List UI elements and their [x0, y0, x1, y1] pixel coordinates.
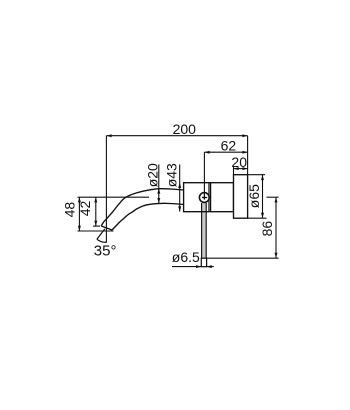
angle 35 degrees	[97, 229, 105, 239]
dimension ø6.5	[172, 266, 201, 268]
spout bottom outline	[112, 203, 184, 230]
handle screw	[199, 193, 209, 203]
dimension 42	[95, 197, 97, 226]
body joint lines	[208, 183, 210, 212]
dimension 48	[78, 197, 80, 231]
screw cross	[202, 197, 207, 199]
dimension 86	[267, 196, 279, 198]
svg-text:ø6.5: ø6.5	[172, 249, 200, 265]
svg-text:200: 200	[173, 121, 197, 137]
spout top outline	[101, 189, 183, 226]
svg-text:42: 42	[77, 201, 93, 217]
svg-text:20: 20	[231, 154, 247, 170]
svg-text:ø65: ø65	[246, 184, 262, 208]
dimension ø65	[248, 174, 265, 176]
dimension ø20	[158, 165, 160, 204]
svg-text:35°: 35°	[94, 242, 117, 259]
svg-text:86: 86	[259, 221, 275, 237]
svg-text:62: 62	[221, 137, 237, 153]
spout outlet face	[101, 226, 112, 230]
supply pipe	[202, 203, 207, 258]
wall flange ø65	[234, 175, 248, 219]
dimension 200	[106, 135, 247, 137]
svg-text:ø43: ø43	[163, 163, 179, 187]
centerline reference	[78, 196, 150, 198]
pipe end fitting	[201, 258, 206, 267]
svg-text:ø20: ø20	[145, 163, 161, 187]
dimension 62	[204, 151, 247, 153]
dimension ø43	[179, 165, 181, 212]
dimension 20	[234, 168, 248, 170]
body cylinder ø43	[184, 183, 234, 212]
svg-text:48: 48	[62, 202, 78, 218]
